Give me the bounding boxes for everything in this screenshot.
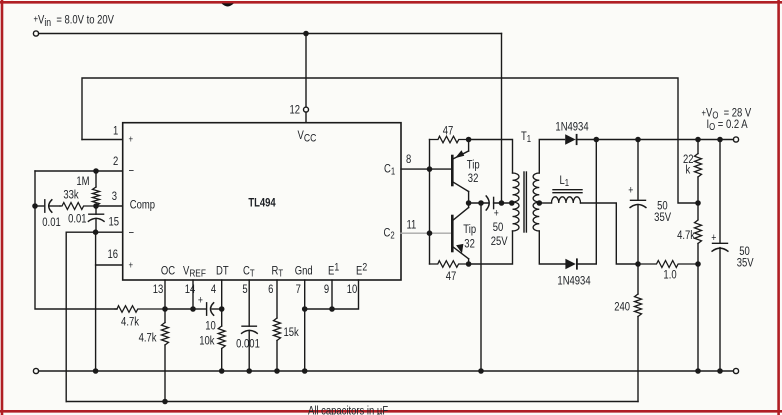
wire Vin to pin 12 xyxy=(305,34,307,108)
wire secondary bottom to diode xyxy=(539,231,565,264)
wire pin 1 xyxy=(82,139,123,141)
svg-text:3: 3 xyxy=(112,190,117,203)
label All capacitors in uF xyxy=(308,405,389,415)
label 1N4934 top xyxy=(555,120,588,133)
label 4 xyxy=(211,283,216,296)
node pin7 ground xyxy=(303,369,307,373)
node pin16 ground xyxy=(94,369,98,373)
label 1.0 xyxy=(663,268,676,281)
svg-text:33k: 33k xyxy=(63,188,79,201)
wire Vin top rail xyxy=(39,33,502,35)
wire feedback rail y78 xyxy=(82,78,698,203)
label Tip 32 bottom xyxy=(463,223,476,236)
wire 4.7k to bottom line xyxy=(164,345,166,402)
label Gnd xyxy=(295,264,313,277)
wire pin 5 below IC xyxy=(248,280,250,326)
node x481 ground xyxy=(479,369,483,373)
node Vin cap junction xyxy=(499,201,503,205)
svg-text:TL494: TL494 xyxy=(248,196,275,209)
ground rail xyxy=(39,370,734,372)
label 9 xyxy=(324,283,329,296)
wire pin 2 xyxy=(35,170,123,172)
resistor 33k xyxy=(60,203,96,210)
label OC xyxy=(161,264,175,277)
label E2 xyxy=(356,262,368,278)
label 4.7k right xyxy=(677,229,695,242)
svg-text:L1: L1 xyxy=(560,174,570,188)
node T1 secondary center tap xyxy=(537,201,541,205)
label 4.7k vertical xyxy=(139,332,157,345)
label TL494 xyxy=(248,196,275,209)
svg-text:8: 8 xyxy=(406,153,411,166)
node feedback junction xyxy=(696,201,700,205)
label pin2 minus xyxy=(129,165,135,178)
svg-text:0.01: 0.01 xyxy=(68,212,86,225)
node pin14 rail xyxy=(191,307,195,311)
svg-text:4.7k: 4.7k xyxy=(677,229,695,242)
svg-text:5: 5 xyxy=(242,283,247,296)
svg-text:11: 11 xyxy=(407,218,417,231)
svg-text:1.0: 1.0 xyxy=(663,268,676,281)
wire pin 15 xyxy=(66,232,123,401)
svg-text:VREF: VREF xyxy=(183,264,206,280)
wire T1 primary bottom to emitter row xyxy=(469,231,513,264)
node 0.01 cap tap xyxy=(33,204,37,208)
svg-text:Tip: Tip xyxy=(467,158,480,171)
label plus C6 xyxy=(711,232,716,244)
svg-text:+: + xyxy=(628,185,633,197)
node T1 center tap xyxy=(510,201,514,205)
label 240 xyxy=(614,301,630,314)
svg-text:50: 50 xyxy=(493,221,504,234)
svg-text:IO = 0.2 A: IO = 0.2 A xyxy=(707,118,749,132)
svg-text:15: 15 xyxy=(108,216,119,229)
node C6 ground xyxy=(718,369,722,373)
label 47 top xyxy=(443,124,454,137)
resistor 4.7k vertical xyxy=(162,323,169,346)
svg-text:12: 12 xyxy=(289,104,300,117)
wire pin 9 below IC xyxy=(331,280,333,309)
svg-text:14: 14 xyxy=(185,283,196,296)
node cap C6 top xyxy=(718,137,722,141)
input terminal +Vin xyxy=(33,31,38,36)
svg-text:k: k xyxy=(686,164,691,177)
svg-text:+: + xyxy=(129,259,134,270)
node pin11 xyxy=(427,231,431,235)
svg-text:+: + xyxy=(711,232,716,244)
node pin15 cap junction xyxy=(94,230,98,234)
svg-text:0.01: 0.01 xyxy=(42,216,60,229)
label 11 xyxy=(407,218,417,231)
wire left column x35 xyxy=(35,171,117,309)
label 10k xyxy=(199,335,215,348)
label 8 xyxy=(406,153,411,166)
label 1 xyxy=(113,125,118,138)
node pin7 rail xyxy=(303,307,307,311)
bottom line xyxy=(66,401,638,403)
diode D2 1N4934 bottom xyxy=(565,259,577,270)
label 12 xyxy=(289,104,300,117)
label 15k xyxy=(284,326,300,339)
pin 12 terminal circle xyxy=(304,107,309,112)
label 0.01 left xyxy=(42,216,60,229)
wire base column xyxy=(429,140,431,265)
node cap C5 top xyxy=(636,137,640,141)
label IO = 0.2 A xyxy=(707,118,749,132)
transformer T1 primary winding xyxy=(513,173,520,231)
resistor 10k xyxy=(218,326,225,349)
resistor 22k xyxy=(695,140,702,204)
capacitor 0.001 xyxy=(242,326,258,371)
resistor 4.7k horizontal xyxy=(115,306,165,313)
label 22 k xyxy=(683,153,694,166)
wire collectors to cap xyxy=(469,202,488,204)
resistor 47 bottom xyxy=(430,261,469,268)
svg-text:Gnd: Gnd xyxy=(295,264,313,277)
wire 4.7k to ground xyxy=(697,264,699,371)
svg-text:−: − xyxy=(129,227,135,240)
wire 10k to ground rail xyxy=(221,349,223,372)
svg-text:+: + xyxy=(198,294,203,306)
label C1 xyxy=(384,162,395,176)
svg-text:35V: 35V xyxy=(737,257,755,270)
svg-text:C1: C1 xyxy=(384,162,395,176)
node 1.0 right xyxy=(696,262,700,266)
svg-text:6: 6 xyxy=(268,283,273,296)
wire pin 11 gray xyxy=(401,232,451,234)
node 22k top xyxy=(696,137,700,141)
resistor 240 xyxy=(635,264,642,402)
node bottom line xyxy=(163,399,167,403)
svg-text:25V: 25V xyxy=(491,235,509,248)
label 47 bottom xyxy=(446,270,457,283)
svg-text:47: 47 xyxy=(443,124,454,137)
label 0.001 xyxy=(236,338,260,351)
transistor Q2 Tip32 bottom xyxy=(452,203,468,264)
label 4.7k horizontal xyxy=(121,316,139,329)
label 7 xyxy=(296,283,301,296)
label 0.01 right xyxy=(68,212,86,225)
label plus 10uF xyxy=(198,294,203,306)
svg-text:+: + xyxy=(129,133,134,144)
label 16 xyxy=(107,248,118,261)
label Tip 32 top xyxy=(467,158,480,171)
wire pin 13 below IC xyxy=(164,280,166,323)
capacitor 50uF 25V xyxy=(486,196,512,210)
node D2 top rail xyxy=(594,137,598,141)
svg-text:CT: CT xyxy=(243,264,255,278)
svg-text:35V: 35V xyxy=(654,211,672,224)
wire pin 14 below IC xyxy=(192,280,194,309)
diode D1 1N4934 top xyxy=(565,134,576,145)
node ground branch xyxy=(479,201,483,205)
node pin13 rail xyxy=(163,307,167,311)
node 10k ground xyxy=(220,369,224,373)
wire pin 7 below IC xyxy=(304,280,306,371)
node 47 bottom right xyxy=(467,262,471,266)
ground terminal left xyxy=(33,368,38,373)
inductor L1 xyxy=(539,190,582,203)
label 15 xyxy=(108,216,119,229)
svg-text:10: 10 xyxy=(347,283,358,296)
label 14 xyxy=(185,283,196,296)
svg-text:4.7k: 4.7k xyxy=(121,316,139,329)
transformer T1 core xyxy=(524,172,526,232)
svg-text:240: 240 xyxy=(614,301,630,314)
label T1 xyxy=(521,130,531,144)
node pin8 xyxy=(427,167,431,171)
label 50 35V left xyxy=(657,200,668,213)
svg-text:16: 16 xyxy=(107,248,118,261)
label 50 25V xyxy=(493,221,504,234)
resistor 15k xyxy=(274,318,281,341)
svg-text:1M: 1M xyxy=(76,175,89,188)
wire L1 to output row xyxy=(581,203,639,264)
svg-text:C2: C2 xyxy=(384,227,395,241)
svg-text:DT: DT xyxy=(216,264,229,277)
svg-text:1N4934: 1N4934 xyxy=(557,275,590,288)
svg-text:2: 2 xyxy=(113,155,118,168)
label plus C5 xyxy=(628,185,633,197)
capacitor 10uF xyxy=(193,303,222,315)
label 3 xyxy=(112,190,117,203)
svg-text:10: 10 xyxy=(205,320,216,333)
wire ground branch x481 xyxy=(480,203,482,371)
svg-text:7: 7 xyxy=(296,283,301,296)
label RT xyxy=(272,264,284,278)
label +Vin = 8.0V to 20V xyxy=(34,14,115,30)
label pin15 minus xyxy=(129,227,135,240)
wire pin 16 column xyxy=(95,232,97,371)
node pin9 rail xyxy=(330,307,334,311)
label 1N4934 bottom xyxy=(557,275,590,288)
notch on top border xyxy=(222,3,234,6)
resistor 47 top xyxy=(430,136,469,143)
resistor 1M xyxy=(93,171,100,206)
svg-text:−: − xyxy=(129,165,135,178)
label E1 xyxy=(328,262,340,278)
wire output top rail xyxy=(576,139,733,141)
svg-text:32: 32 xyxy=(464,238,475,251)
label 10 xyxy=(347,283,358,296)
label 1M xyxy=(76,175,89,188)
capacitor 0.01 comp xyxy=(88,206,104,232)
node pin2/1M junction xyxy=(94,169,98,173)
node 47 top right xyxy=(467,137,471,141)
node pin4 rail xyxy=(220,307,224,311)
wire pin 6 below IC xyxy=(276,280,278,318)
svg-text:15k: 15k xyxy=(284,326,300,339)
wire pin 3 xyxy=(96,205,123,207)
svg-text:0.001: 0.001 xyxy=(236,338,260,351)
capacitor 50uF 35V right xyxy=(712,140,728,372)
node Vin junction xyxy=(304,31,308,35)
label plus 50/25V xyxy=(494,208,499,220)
svg-text:T1: T1 xyxy=(521,130,531,144)
wire Q1 emitter to T1 primary top xyxy=(469,140,513,174)
svg-text:+: + xyxy=(494,208,499,220)
node x698 ground xyxy=(696,369,700,373)
node pin6 ground xyxy=(275,369,279,373)
node output row left xyxy=(636,262,640,266)
label pin1 plus xyxy=(129,133,134,144)
output terminal top xyxy=(733,137,738,142)
node collectors xyxy=(467,201,471,205)
capacitor 50uF 35V left xyxy=(630,140,646,265)
wire pin 4 below IC xyxy=(221,280,223,326)
capacitor 0.01 input left xyxy=(35,200,60,212)
resistor 1.0 xyxy=(638,261,698,268)
label 2 xyxy=(113,155,118,168)
svg-text:10k: 10k xyxy=(199,335,215,348)
label C2 xyxy=(384,227,395,241)
svg-text:Tip: Tip xyxy=(463,223,476,236)
output terminal bottom xyxy=(733,368,738,373)
label Comp xyxy=(130,198,155,211)
resistor 4.7k right xyxy=(695,203,702,264)
svg-text:All capacitors in µF: All capacitors in µF xyxy=(308,405,389,415)
svg-text:RT: RT xyxy=(272,264,284,278)
label 5 xyxy=(242,283,247,296)
wire pin 12 into IC xyxy=(305,112,307,123)
svg-text:9: 9 xyxy=(324,283,329,296)
label 13 xyxy=(153,283,164,296)
node pin3 junction xyxy=(94,204,98,208)
svg-text:1: 1 xyxy=(113,125,118,138)
svg-text:4.7k: 4.7k xyxy=(139,332,157,345)
node pin5 ground xyxy=(247,369,251,373)
wire pin 10 below IC xyxy=(305,280,359,309)
label 10 xyxy=(205,320,216,333)
svg-text:1N4934: 1N4934 xyxy=(555,120,588,133)
label CT xyxy=(243,264,255,278)
label 33k xyxy=(63,188,79,201)
svg-text:32: 32 xyxy=(468,172,479,185)
transistor Q1 Tip32 top xyxy=(452,140,468,204)
op-amp U1 TL494 body xyxy=(123,123,401,280)
svg-text:13: 13 xyxy=(153,283,164,296)
wire pin 8 xyxy=(401,168,451,170)
label pin16 plus xyxy=(129,259,134,270)
label VREF xyxy=(183,264,206,280)
wire 15k to ground rail xyxy=(276,341,278,372)
wire secondary top to diode xyxy=(539,140,564,174)
label L1 xyxy=(560,174,570,188)
label 6 xyxy=(268,283,273,296)
label VCC xyxy=(298,129,317,145)
label 50 35V right xyxy=(739,245,750,258)
svg-text:OC: OC xyxy=(161,264,175,277)
wire pin 16 xyxy=(96,264,123,266)
svg-text:Comp: Comp xyxy=(130,198,155,211)
label +VO = 28 V xyxy=(702,107,752,121)
wire rail to pin14 xyxy=(165,308,193,310)
wire Vin drop x501 xyxy=(501,34,503,204)
svg-text:4: 4 xyxy=(211,283,216,296)
wire D2 up to top rail xyxy=(577,140,596,265)
svg-text:47: 47 xyxy=(446,270,457,283)
transformer T1 secondary winding xyxy=(533,173,539,231)
label DT xyxy=(216,264,229,277)
